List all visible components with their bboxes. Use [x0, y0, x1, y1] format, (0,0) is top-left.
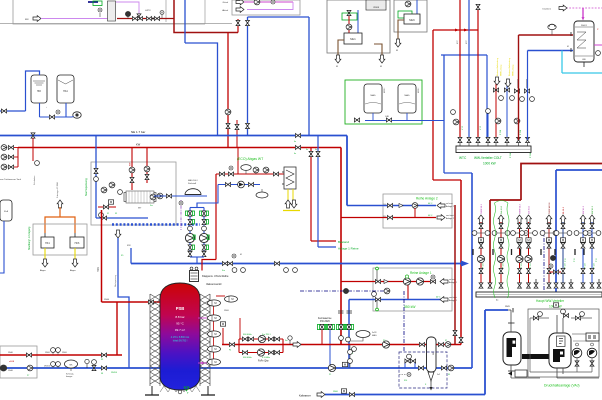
svg-text:Anlage 1 Reine: Anlage 1 Reine [338, 247, 359, 251]
svg-text:P1: P1 [329, 374, 331, 376]
svg-text:WHO1: WHO1 [581, 25, 588, 27]
truss edge d [209, 294, 211, 386]
pipe red drop x238 top [237, 19, 239, 33]
svg-text:Anlage 1: Anlage 1 [449, 299, 458, 302]
pipe red dist jog [490, 199, 521, 201]
valve station b [575, 316, 580, 320]
box vessel1 drain [515, 370, 527, 377]
svg-text:P 123: P 123 [521, 263, 523, 268]
valve FW x322 [320, 324, 324, 329]
svg-text:F7: F7 [445, 340, 447, 342]
valve low x247 [246, 123, 250, 128]
wire vessel1 bottom stem [510, 365, 512, 378]
valve FW x349 [347, 324, 351, 329]
valve drop 2 low [499, 268, 503, 273]
pump left row 1 [1, 145, 7, 151]
stub manifold x536 [535, 279, 537, 288]
pipe red drop d-wtc3 [477, 5, 479, 139]
svg-text:47C: 47C [466, 40, 468, 44]
M-box tank outlet [220, 322, 225, 326]
stub red dome right [216, 295, 225, 297]
wire MSR dashdot x181 [180, 200, 182, 230]
arrow drop 7 [580, 215, 586, 223]
svg-text:P 123: P 123 [530, 263, 532, 268]
svg-text:P 234: P 234 [500, 130, 502, 135]
valve drop 1 top [479, 223, 483, 228]
pipe blue drop x118-x129 [118, 238, 129, 368]
pump drop 2 [497, 255, 504, 262]
svg-text:Bestand: Bestand [338, 240, 349, 244]
valve drop 6 top [561, 223, 565, 228]
pump ECO 1 [253, 167, 259, 173]
meter drop 8 R [596, 231, 601, 236]
svg-text:Klappenv. i=6x/s Reihe: Klappenv. i=6x/s Reihe [202, 274, 229, 278]
valve row wtc b [504, 88, 509, 92]
pipe red row 3 [14, 166, 18, 168]
pipe blue drop x349 [348, 300, 350, 369]
valve WP-1 [130, 177, 134, 182]
pipe red RA2 link [414, 208, 416, 218]
svg-text:MAG: MAG [371, 94, 376, 97]
pump P-MH1 [346, 24, 352, 30]
meter RA1 low a [339, 336, 344, 341]
svg-text:Anlage 2: Anlage 2 [446, 205, 455, 208]
svg-text:P 234: P 234 [520, 130, 522, 135]
valve red main a [229, 343, 234, 347]
pipe blue MH6 [416, 0, 418, 14]
expansion vessel ECO 2 [256, 192, 268, 198]
valve FoFe e [242, 351, 247, 355]
pipe blue main3 bottom [0, 367, 472, 369]
pipe drop 2 [500, 222, 502, 283]
svg-text:Fm: Fm [222, 270, 225, 272]
wire vessel2 stem a [556, 315, 558, 333]
green tag twin 190 a [193, 211, 195, 216]
wire drop 1 meters [475, 232, 488, 234]
svg-text:550 kW: 550 kW [404, 305, 416, 309]
valve drop 5 mid [547, 243, 551, 248]
pipe blue WP bottom [96, 217, 148, 219]
foot b [201, 394, 215, 396]
valve manifold-top x527.5 [526, 137, 530, 142]
pipe blue top to vessel [485, 309, 508, 311]
compressor 2 [587, 348, 597, 358]
meter drop 4 R [533, 231, 538, 236]
valve stub x599 [597, 283, 601, 288]
meter main2 d [293, 268, 298, 273]
valve row wtc a [493, 88, 498, 92]
svg-text:F2: F2 [107, 213, 109, 215]
pipe gas MH6 [398, 20, 404, 40]
valve WP inner [103, 205, 108, 209]
arrow drop 4 [526, 215, 532, 223]
svg-text:Zirk 60.2: Zirk 60.2 [500, 205, 503, 214]
motor circle main2 [232, 254, 236, 258]
pipe red drop x238 to ECO [237, 148, 239, 175]
pipe FoFe left link [238, 339, 240, 353]
wire MSR dashdot V [403, 291, 405, 352]
valve V5 [146, 17, 151, 21]
pipe violet BW supply [41, 18, 108, 20]
pipe drop 3 [519, 222, 521, 283]
svg-text:Anlage 2: Anlage 2 [446, 217, 455, 220]
tank WT storage (top right) [574, 21, 594, 62]
sensor circle b [348, 359, 353, 364]
wire gray riser [165, 0, 167, 22]
pump ECO dark [238, 181, 245, 188]
valve FoFe f [268, 351, 273, 355]
tank bottom stub [583, 62, 585, 67]
sensor oval 1 [208, 300, 221, 306]
stub magenta oval5 [198, 362, 207, 364]
pump WP-6 [157, 193, 163, 199]
M-box drop 8 [589, 238, 594, 242]
valve station a [533, 316, 538, 320]
unit HK1 [41, 237, 54, 248]
svg-text:P7: P7 [27, 375, 29, 377]
svg-text:V 12: V 12 [480, 126, 482, 130]
pipe yellow HK1 drain [44, 248, 46, 260]
pipe blue to WT tank [528, 50, 574, 52]
arrow RA2 blue [437, 203, 445, 209]
svg-text:M: M [380, 66, 382, 68]
pipe blue boiler return [357, 10, 359, 33]
stub into manifold x469 [468, 143, 470, 146]
pipe red link y180 [433, 179, 461, 181]
valve FoFe a [242, 337, 247, 341]
svg-text:Drucklere: Drucklere [542, 9, 551, 11]
svg-text:NE 1.7 bar: NE 1.7 bar [131, 130, 145, 134]
valve bypass a [405, 359, 410, 363]
pump red main right [445, 342, 451, 348]
wire MSR dashdot H [300, 290, 387, 292]
meter drop 2 L [492, 231, 497, 236]
green instrument box C [342, 13, 357, 20]
svg-text:DN50: DN50 [62, 352, 67, 354]
pump dark drop5 [550, 255, 555, 260]
gauge main3 [85, 359, 89, 368]
stub manifold x599 [598, 279, 600, 288]
wire stem M2 [161, 15, 163, 19]
svg-text:KW: KW [130, 163, 132, 166]
valve drop 4 mid [527, 243, 531, 248]
sensor oval 3 [208, 331, 221, 337]
pump P-MH6 [405, 1, 411, 7]
thick compensator bar [522, 354, 549, 359]
wire pump stem [551, 30, 553, 36]
arrow magenta [559, 5, 567, 11]
meter drop 1 L [472, 231, 477, 236]
svg-text:Zirkulation: Zirkulation [33, 176, 36, 185]
pipe drop 8 [591, 222, 593, 283]
pipe red drop x117 [116, 302, 118, 355]
valve row wtc c [514, 89, 519, 93]
pipe red drop x228 [227, 33, 229, 148]
svg-text:NK: NK [69, 365, 73, 367]
meter RA1 low b [346, 337, 351, 342]
svg-text:99.7 m³: 99.7 m³ [175, 328, 185, 332]
pipe blue main NE header [0, 135, 347, 137]
sensor oval 5 [208, 359, 221, 365]
svg-text:F60 60Hz: F60 60Hz [243, 334, 252, 336]
svg-text:M: M [336, 66, 338, 68]
wire vessel2 to control [572, 333, 586, 335]
pipe magenta dashed top [566, 7, 602, 9]
tick drop 6 [554, 249, 556, 255]
wire MSR dist [543, 230, 545, 293]
boiler vessel LWWB [366, 0, 386, 10]
wire stub wtc8 [526, 79, 528, 88]
enclosure green MAG box [345, 80, 422, 124]
svg-text:DN40: DN40 [8, 352, 13, 354]
pipe red stub x237 [236, 120, 238, 148]
svg-text:4x: 4x [315, 149, 317, 151]
svg-text:TWW 60.3: TWW 60.3 [520, 203, 522, 214]
meter drop 8 L [583, 231, 588, 236]
valve drop 3 low [518, 268, 522, 273]
green tag twin 204 b [207, 220, 209, 225]
pipe red ECO supply [216, 173, 284, 175]
pipe magenta stub right [594, 44, 602, 46]
arrow drop 3 [517, 215, 523, 223]
pump red main P2 [382, 341, 389, 348]
pump P-228 [225, 109, 231, 115]
pipe red bottom header [0, 354, 122, 356]
valve FW x330 [328, 324, 332, 329]
arrow wtc5 [494, 77, 500, 85]
stub into manifold x496 [495, 143, 497, 146]
svg-text:TWW 60.1: TWW 60.1 [481, 203, 483, 214]
M-box drop 7 [580, 238, 585, 242]
pipe red main riser x461 [460, 180, 462, 337]
valve manifold-top x478 [476, 137, 480, 142]
svg-text:P 12: P 12 [596, 258, 598, 262]
pipe red tap x240 [239, 318, 241, 339]
svg-text:5x2: 5x2 [437, 374, 440, 376]
green tag FW x341 l [336, 325, 338, 330]
svg-text:P2: P2 [383, 340, 385, 342]
wire station pipe b [571, 317, 592, 319]
stub into manifold x507 [506, 143, 508, 146]
arrow gas down 1 [335, 55, 341, 63]
arrow RA1 blue [440, 297, 448, 303]
green tag FW x330 r [332, 325, 334, 330]
sensor oval 4 [208, 346, 221, 352]
tick drop 4 [520, 249, 522, 255]
svg-text:FoFe Qtw: FoFe Qtw [258, 360, 269, 363]
arrow gas down 3 [395, 39, 401, 47]
wire vessel2 bot b [562, 368, 564, 374]
wire comp1 drop [576, 358, 578, 372]
valve main2 b [227, 262, 232, 266]
meter f b [56, 348, 61, 353]
svg-text:Anlage 1: Anlage 1 [449, 281, 458, 284]
valve WP-2 [145, 174, 149, 179]
pump RA2 [412, 203, 418, 209]
meter main2 a [232, 268, 237, 273]
pump wtc b [514, 118, 520, 124]
pipe red main drop x341 [340, 148, 342, 345]
M-box vessel2 [553, 303, 558, 307]
enclosure box WP [91, 162, 176, 225]
wire drop 6 meters [557, 232, 570, 234]
valve twin 190 b [188, 219, 192, 224]
tick vessel1 b [508, 370, 515, 372]
valve main1 blue x298 [295, 134, 300, 138]
green tag FW x349 r [351, 325, 353, 330]
valve ECO m [228, 172, 233, 176]
arrow RA1 [440, 279, 448, 285]
meter twin 204 [202, 226, 207, 231]
valve manifold-top x496 [494, 137, 498, 142]
valve ECO 2 [273, 172, 278, 176]
svg-text:LWWB: LWWB [373, 7, 380, 9]
valve manifold-top x507 [505, 137, 509, 142]
svg-text:MAG 500 l: MAG 500 l [188, 179, 198, 182]
sensor oval 0 [225, 296, 238, 302]
valve drop 5 top [547, 223, 551, 228]
pipe twin bottom header [190, 256, 204, 258]
svg-text:Abgas: Abgas [40, 269, 46, 272]
svg-text:Stickstoff: Stickstoff [188, 182, 197, 185]
pump WP-4 [109, 182, 115, 188]
valve drop 2 mid [499, 243, 503, 248]
M-box blue main [342, 362, 347, 366]
expansion vessel RA1 [356, 331, 370, 338]
pipe blue feed left [0, 110, 26, 112]
meter drop 1 R [485, 231, 490, 236]
wire drain bottom b [557, 377, 599, 379]
svg-text:P 123: P 123 [503, 263, 505, 268]
pipe red to WT tank [519, 34, 574, 36]
arrow flue 1 [285, 200, 291, 208]
enclosure box D (boiler MH6) [394, 0, 427, 32]
valve bypass b [410, 359, 415, 363]
pipe red main lower [222, 344, 461, 346]
tick vessel1 [508, 322, 515, 324]
svg-text:von best.: von best. [446, 214, 455, 217]
pipe twin branch x190 [189, 208, 191, 258]
valve MAG a [354, 118, 359, 122]
pump left wtc [453, 119, 459, 125]
motor valve loop [271, 0, 275, 4]
meter drop 6 L [554, 231, 559, 236]
expansion vessel ECO [241, 165, 251, 171]
valve drop 4 top [527, 223, 531, 228]
motor circle ECO [229, 166, 233, 170]
svg-text:DN50: DN50 [224, 310, 229, 312]
pipe blue over tank HDI [26, 71, 40, 111]
vessel FLA left edge [0, 200, 12, 221]
pump drop 1 [477, 255, 484, 262]
pipe blue tank bottom link [40, 116, 73, 118]
pipe orange split [45, 217, 75, 233]
M-box drop 1 [478, 238, 483, 242]
pump MSR 2 [384, 288, 390, 294]
pipe blue jog to x217 [185, 43, 218, 136]
pipe red WP x132 [131, 148, 133, 191]
valve drop 6 mid [561, 243, 565, 248]
svg-text:4x: 4x [306, 149, 308, 151]
tank MAG 1 [364, 84, 382, 113]
meter m3 a [51, 362, 56, 367]
wire drop 5 meters [543, 232, 556, 234]
enclosure box HK [33, 224, 87, 255]
svg-text:FLA: FLA [4, 210, 9, 213]
pipe magenta loop top [244, 1, 293, 3]
wire vessel2 bot a [556, 368, 558, 378]
pipe into pump [72, 116, 74, 119]
svg-text:MAG: MAG [372, 334, 377, 337]
meter drop 7 R [587, 231, 592, 236]
pump sensor MSR [343, 288, 348, 293]
pipe cyan drop [561, 51, 563, 74]
pipe red riser tail [460, 343, 462, 345]
pipe red RA1 [341, 281, 436, 283]
svg-text:von best.: von best. [449, 296, 458, 299]
valve FoFe g [274, 351, 279, 355]
break tick a1 [338, 310, 344, 312]
meter x37 [35, 161, 40, 166]
pipe blue link y173 [444, 172, 472, 174]
pump WP-5 [150, 194, 156, 200]
svg-text:P 12: P 12 [565, 258, 567, 262]
pipe blue drop x247 [247, 17, 249, 136]
svg-text:F60 60Hz: F60 60Hz [243, 357, 252, 359]
valve ECO 4 [248, 183, 253, 187]
buffer tank legs [151, 386, 153, 395]
svg-text:Zirk 60.4: Zirk 60.4 [528, 205, 531, 214]
wire comp top header [573, 340, 596, 342]
column funnel [428, 372, 434, 381]
svg-text:RL 61.1: RL 61.1 [563, 206, 565, 214]
valve drop 6 manifold [561, 283, 565, 288]
valve ECO 1 [219, 172, 224, 176]
valve compressor 2 [590, 361, 594, 366]
valve WP bottom [101, 216, 106, 220]
valve main2 a [222, 262, 227, 266]
stub into manifold x478 [477, 143, 479, 146]
pipe cyan run [562, 72, 602, 74]
valve vessel2 [563, 314, 568, 318]
pipe red riser to header [174, 0, 238, 33]
M-box low [341, 389, 346, 393]
port tick cold [570, 48, 572, 52]
enclosure box B [232, 0, 300, 15]
pipe red drop d-wtc5 [495, 84, 497, 139]
pump wtc a [495, 118, 501, 124]
valve drop 6 low [561, 268, 565, 273]
valve drop 5 manifold [547, 283, 551, 288]
meter circle wtc c [520, 97, 525, 102]
pipe blue MAG header [365, 120, 444, 122]
svg-text:von Trinkwasser Tank: von Trinkwasser Tank [0, 178, 22, 181]
pump main3 a [27, 365, 33, 371]
pipe yellow HK6 drain [74, 248, 76, 260]
wire drain bottom a [511, 377, 540, 379]
valve FoFe d [274, 337, 279, 341]
arrow drop 5 [546, 215, 552, 223]
svg-text:MAG: MAG [405, 94, 410, 97]
valve drop 8 top [590, 223, 594, 228]
valve feed left [1, 109, 6, 113]
heat exchanger ECO flue [284, 167, 296, 189]
valve drop 7 top [581, 223, 585, 228]
svg-text:DN150: DN150 [111, 372, 117, 374]
pipe blue FW drop [329, 330, 331, 368]
valve twin 190 c [188, 245, 192, 250]
valve V4 [137, 17, 142, 21]
